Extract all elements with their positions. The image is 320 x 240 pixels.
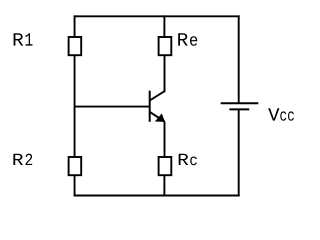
wire base <box>75 106 150 108</box>
resistor R2 <box>69 157 82 175</box>
wire left rail middle <box>74 55 76 157</box>
wire emitter <box>164 122 166 157</box>
label Rc <box>179 154 197 165</box>
wire right rail lower <box>238 109 240 196</box>
wire middle branch lower <box>163 175 165 195</box>
wire right rail upper <box>238 15 240 103</box>
label R1 <box>14 33 33 45</box>
transistor Q1 <box>150 91 165 122</box>
resistor R1 <box>69 37 82 55</box>
resistor Rc <box>159 157 172 175</box>
wire left rail lower <box>74 175 76 196</box>
label R2 <box>13 154 32 165</box>
resistor Re <box>159 37 172 55</box>
label Re <box>178 33 197 46</box>
wire bottom rail <box>74 195 240 197</box>
wire top rail <box>74 15 240 17</box>
wire collector <box>164 55 166 92</box>
wire left rail upper <box>74 15 76 37</box>
label Vcc <box>268 108 294 121</box>
battery Vcc <box>221 103 259 109</box>
wire middle branch upper <box>163 15 165 37</box>
